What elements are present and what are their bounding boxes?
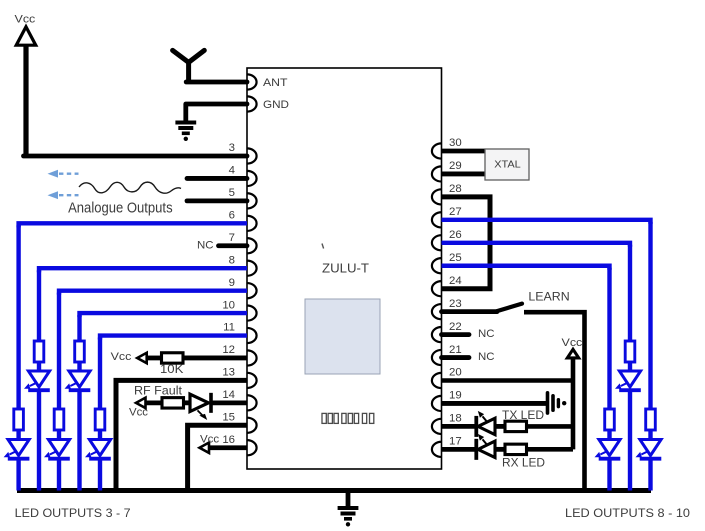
svg-text:9: 9	[229, 277, 235, 289]
svg-text:3: 3	[229, 142, 235, 154]
svg-text:19: 19	[449, 390, 462, 402]
svg-text:25: 25	[449, 252, 462, 264]
svg-text:20: 20	[449, 367, 462, 379]
svg-text:10K: 10K	[160, 362, 183, 376]
svg-text:Vcc: Vcc	[200, 434, 219, 446]
svg-text:8: 8	[229, 254, 235, 266]
svg-text:28: 28	[449, 183, 462, 195]
svg-text:29: 29	[449, 160, 462, 172]
svg-text:TX LED: TX LED	[502, 408, 544, 422]
svg-text:12: 12	[222, 344, 235, 356]
svg-text:XTAL: XTAL	[494, 159, 521, 171]
svg-text:4: 4	[229, 165, 235, 177]
svg-text:27: 27	[449, 206, 462, 218]
svg-text:RX LED: RX LED	[502, 455, 545, 469]
svg-text:21: 21	[449, 344, 462, 356]
svg-text:Vcc: Vcc	[15, 13, 36, 25]
svg-text:Vcc: Vcc	[129, 407, 148, 419]
svg-text:LED OUTPUTS 3 - 7: LED OUTPUTS 3 - 7	[15, 506, 131, 520]
svg-text:13: 13	[222, 367, 235, 379]
svg-text:RF Fault: RF Fault	[134, 383, 183, 397]
svg-text:26: 26	[449, 229, 462, 241]
svg-text:Vcc: Vcc	[111, 351, 132, 363]
svg-text:LED OUTPUTS 8 - 10: LED OUTPUTS 8 - 10	[565, 506, 690, 520]
svg-text:23: 23	[449, 298, 462, 310]
svg-text:5: 5	[229, 187, 235, 199]
svg-text:Vcc: Vcc	[562, 337, 583, 349]
svg-text:11: 11	[223, 322, 235, 334]
svg-text:16: 16	[222, 434, 235, 446]
svg-text:LEARN: LEARN	[528, 289, 569, 303]
svg-text:14: 14	[222, 389, 235, 401]
svg-text:NC: NC	[197, 240, 214, 252]
svg-text:22: 22	[449, 321, 462, 333]
svg-text:7: 7	[229, 232, 235, 244]
svg-text:GND: GND	[263, 99, 289, 111]
svg-text:10: 10	[222, 299, 235, 311]
svg-text:Analogue Outputs: Analogue Outputs	[68, 201, 173, 217]
svg-text:18: 18	[449, 413, 462, 425]
svg-text:6: 6	[229, 210, 235, 222]
svg-text:ANT: ANT	[263, 77, 288, 89]
svg-text:30: 30	[449, 137, 462, 149]
svg-text:15: 15	[222, 411, 235, 423]
svg-text:24: 24	[449, 275, 462, 287]
svg-text:ZULU-T: ZULU-T	[322, 261, 369, 276]
svg-text:17: 17	[449, 436, 462, 448]
svg-text:NC: NC	[478, 351, 495, 363]
svg-text:NC: NC	[478, 328, 495, 340]
